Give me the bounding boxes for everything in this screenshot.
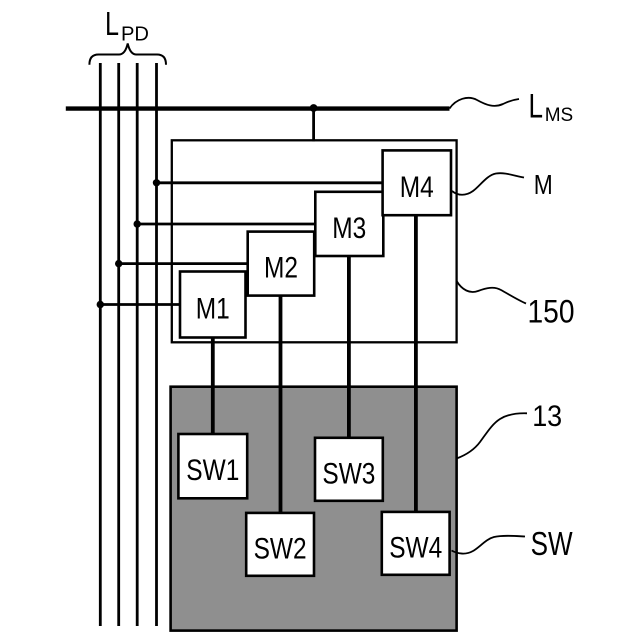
- svg-text:M4: M4: [400, 171, 434, 204]
- svg-text:L: L: [105, 5, 119, 42]
- leader squiggle to SW label: [452, 536, 526, 554]
- wire M4 to SW4: [414, 215, 418, 512]
- box SW4: [382, 512, 450, 575]
- brace for LPD bundle: [89, 44, 166, 65]
- box M1: [180, 272, 246, 338]
- svg-text:MS: MS: [545, 105, 574, 126]
- label 150: [528, 294, 575, 330]
- label M: [534, 169, 553, 200]
- wire M3 to SW3: [347, 256, 351, 438]
- svg-text:M2: M2: [264, 252, 298, 285]
- svg-text:SW3: SW3: [322, 457, 375, 490]
- svg-text:M3: M3: [332, 212, 366, 245]
- leader squiggle to 150 label: [457, 281, 526, 304]
- wire to M3: [137, 223, 315, 226]
- wire to M4: [157, 181, 383, 184]
- box M2: [248, 232, 315, 296]
- junction dot on LMS: [310, 104, 318, 112]
- svg-text:SW1: SW1: [186, 454, 239, 487]
- box SW1: [178, 434, 247, 498]
- block 150 (outline): [172, 140, 457, 342]
- junction dot M2 line: [115, 260, 122, 267]
- label LMS: [529, 88, 574, 127]
- wire LPD line 3: [136, 63, 139, 626]
- label SW: [531, 525, 574, 562]
- wire from LMS down to block 150: [312, 108, 315, 141]
- box SW2: [246, 513, 314, 576]
- wire LPD line 4: [155, 63, 158, 626]
- junction dot M3 line: [134, 220, 141, 227]
- svg-text:150: 150: [528, 294, 575, 330]
- block 13 (gray switch block): [171, 387, 457, 631]
- wire M2 to SW2: [279, 296, 283, 513]
- wire M1 to SW1: [211, 338, 215, 435]
- leader squiggle to LMS label: [450, 98, 520, 109]
- svg-text:M1: M1: [196, 293, 230, 326]
- box M4: [383, 150, 451, 215]
- leader squiggle to 13 label: [457, 413, 527, 458]
- svg-text:M: M: [534, 169, 553, 200]
- box M3: [315, 192, 383, 256]
- wire to M2: [119, 262, 248, 265]
- svg-text:L: L: [529, 88, 544, 126]
- wire LMS (main horizontal bus): [66, 106, 450, 110]
- svg-text:SW4: SW4: [389, 531, 442, 564]
- box SW3: [315, 438, 383, 501]
- junction dot M1 line: [97, 301, 104, 308]
- label 13: [532, 400, 562, 433]
- leader squiggle to M label: [452, 173, 524, 195]
- svg-text:13: 13: [532, 400, 562, 433]
- wire LPD line 2: [117, 63, 120, 626]
- wire LPD line 1: [99, 63, 102, 626]
- svg-text:SW: SW: [531, 525, 574, 562]
- svg-text:SW2: SW2: [254, 532, 307, 565]
- junction dot M4 line: [153, 179, 160, 186]
- wire to M1: [100, 303, 180, 306]
- label LPD: [105, 5, 149, 46]
- svg-text:PD: PD: [121, 24, 149, 46]
